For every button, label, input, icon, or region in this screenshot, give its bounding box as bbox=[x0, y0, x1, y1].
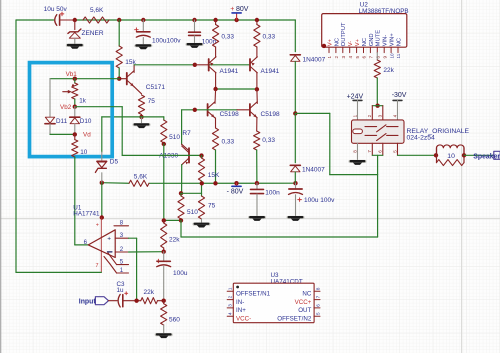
svg-text:5,6K: 5,6K bbox=[134, 173, 148, 180]
node junction input R bbox=[134, 299, 138, 303]
svg-text:+: + bbox=[107, 236, 111, 243]
U2 pin stubs and numbers bbox=[328, 47, 330, 52]
svg-text:024-2z54: 024-2z54 bbox=[407, 135, 436, 142]
svg-text:8: 8 bbox=[315, 287, 320, 290]
svg-text:6: 6 bbox=[315, 304, 320, 307]
node junction 0,33#4 bottom bbox=[255, 181, 259, 185]
svg-text:22k: 22k bbox=[169, 237, 180, 244]
wire 100n to ground bbox=[194, 36, 196, 43]
svg-text:HA17741: HA17741 bbox=[73, 211, 100, 218]
svg-text:OFFSET/N2: OFFSET/N2 bbox=[277, 315, 312, 322]
svg-text:10: 10 bbox=[447, 153, 455, 160]
wire C5198 collector bbox=[214, 89, 217, 103]
wire input to C3 bbox=[109, 300, 118, 302]
node junction protection mid bbox=[293, 111, 297, 115]
wire C5171 collector bbox=[133, 65, 135, 73]
svg-text:GND: GND bbox=[369, 33, 375, 46]
wire 22k to relay coil bbox=[376, 78, 378, 106]
wire driver base rail bbox=[182, 109, 237, 111]
svg-text:9: 9 bbox=[382, 56, 387, 59]
relay contacts bbox=[365, 126, 377, 128]
wire 1N4007 column top bbox=[294, 20, 296, 52]
node junction Vb1 bbox=[73, 77, 77, 81]
svg-text:V+: V+ bbox=[355, 38, 361, 46]
ground below 560 bbox=[155, 333, 173, 336]
svg-text:2: 2 bbox=[367, 114, 372, 117]
svg-text:Input: Input bbox=[79, 299, 97, 306]
zener diode D5 bbox=[101, 117, 103, 152]
svg-text:Vd: Vd bbox=[83, 131, 91, 138]
svg-text:R7: R7 bbox=[182, 130, 191, 137]
svg-text:+: + bbox=[96, 222, 99, 228]
svg-text:75: 75 bbox=[148, 98, 156, 105]
wire base rail A1941 bbox=[195, 64, 209, 66]
ground below zener bbox=[66, 44, 84, 47]
resistor 0,33 (C5198 #2 emitter) bbox=[254, 131, 260, 150]
wire C5198#2 collector bbox=[256, 89, 258, 103]
wire zener to ground bbox=[74, 38, 76, 43]
transistor C5198 #2 bbox=[249, 104, 251, 116]
resistor 15K bbox=[201, 156, 203, 158]
zener diode lead bbox=[74, 20, 76, 30]
U3 pin rows bbox=[227, 290, 233, 292]
wire to relay contact bbox=[295, 112, 330, 114]
resistor 510 (first) bbox=[161, 120, 167, 143]
svg-text:0,33: 0,33 bbox=[263, 34, 276, 41]
capacitor 100n top bbox=[189, 31, 201, 33]
wire Vb1 rail bbox=[50, 78, 119, 80]
ground below 75 bbox=[193, 223, 211, 226]
node junction 0,33#3 bottom bbox=[213, 181, 217, 185]
svg-text:75: 75 bbox=[208, 203, 216, 210]
svg-text:0,33: 0,33 bbox=[221, 34, 234, 41]
node junction Vb2 bbox=[73, 105, 77, 109]
svg-text:IN-: IN- bbox=[236, 299, 244, 306]
resistor 75 (C5171 emitter) bbox=[138, 95, 144, 115]
node junction driver rail bbox=[193, 108, 197, 112]
node junction 560 top bbox=[162, 299, 166, 303]
svg-text:A1941: A1941 bbox=[261, 68, 280, 75]
capacitor 100u bbox=[163, 252, 165, 261]
wire 510 top lead bbox=[163, 117, 165, 120]
svg-text:11: 11 bbox=[396, 53, 401, 58]
svg-text:1: 1 bbox=[327, 56, 332, 59]
node junction 15k tap bbox=[117, 18, 121, 22]
transistor A1941 #1 bbox=[208, 59, 210, 71]
wire 15k top lead bbox=[118, 20, 120, 46]
svg-text:3: 3 bbox=[341, 56, 346, 59]
svg-text:C5198: C5198 bbox=[261, 111, 281, 118]
svg-text:- 80V: - 80V bbox=[227, 189, 244, 196]
svg-text:15K: 15K bbox=[208, 172, 220, 179]
node junction fb right bbox=[179, 218, 183, 222]
wire 100n lead bbox=[194, 20, 196, 32]
wire 100u to ground bbox=[295, 195, 297, 216]
wire op-amp bottom rail bbox=[15, 20, 17, 272]
capacitor 100n lower bbox=[256, 183, 258, 189]
wire C5198 emitter lead bbox=[215, 118, 217, 128]
resistor 0,33 (C5198 #1 emitter) bbox=[212, 128, 218, 150]
relay RELAY_ORIGINALE body bbox=[352, 120, 405, 143]
wire relay pin8 to ground bbox=[357, 143, 359, 159]
node junction fb left bbox=[162, 218, 166, 222]
svg-text:1N4007: 1N4007 bbox=[303, 56, 326, 63]
svg-text:1u: 1u bbox=[117, 287, 125, 294]
wire relay bottom bracket bbox=[371, 143, 373, 155]
wire relay coil bracket bbox=[372, 105, 383, 107]
diode 1N4007 upper bbox=[290, 54, 300, 56]
wire +80V rail top bbox=[16, 19, 54, 21]
wire A1930 emitter down bbox=[181, 165, 183, 194]
wire C3 to 22k bbox=[123, 300, 140, 302]
wire cap lead bbox=[142, 20, 144, 31]
wire 100u bottom bbox=[163, 266, 165, 300]
svg-text:NC: NC bbox=[362, 38, 368, 46]
svg-text:510: 510 bbox=[169, 134, 180, 141]
supply +80V bbox=[236, 13, 238, 20]
node junction relay coil top bbox=[375, 104, 379, 108]
resistor 15k bbox=[116, 46, 122, 68]
svg-text:8: 8 bbox=[376, 56, 381, 59]
wire C5171 emitter to 75 bbox=[134, 87, 141, 94]
ground below 100u lower bbox=[287, 216, 305, 219]
wire -80V rail bbox=[102, 182, 129, 185]
wire A1930 base rail bbox=[122, 154, 201, 156]
resistor 5,6K top bbox=[83, 17, 109, 23]
ground at C5171 emitter bbox=[141, 117, 143, 123]
wire capacitor C? left lead bbox=[61, 19, 75, 21]
svg-text:6: 6 bbox=[378, 150, 383, 153]
node junction 0,33 tap A1941 right bbox=[255, 18, 259, 22]
svg-text:10u 50v: 10u 50v bbox=[44, 6, 68, 13]
svg-text:OUT: OUT bbox=[298, 307, 311, 314]
transistor C5198 #1 bbox=[207, 104, 209, 116]
node junction speaker L right bbox=[462, 153, 466, 157]
node junction output left bbox=[213, 87, 217, 91]
resistor 5,6K lower bbox=[129, 180, 149, 186]
resistor 0,33 (A1941 #1 emitter) bbox=[215, 20, 217, 25]
wire to speaker bbox=[464, 154, 494, 156]
transistor A1941 #2 bbox=[249, 59, 251, 71]
ground below 100n lower bbox=[248, 216, 266, 219]
wire 75#2 branch bbox=[181, 192, 202, 194]
transistor C5171 bbox=[119, 78, 126, 80]
svg-text:8: 8 bbox=[352, 150, 357, 153]
svg-text:D10: D10 bbox=[80, 118, 92, 125]
svg-text:3: 3 bbox=[227, 304, 232, 307]
node junction collector rail / A1941 bases bbox=[193, 63, 197, 67]
svg-text:5: 5 bbox=[315, 312, 320, 315]
svg-text:VCC+: VCC+ bbox=[295, 299, 312, 306]
svg-text:22k: 22k bbox=[383, 67, 394, 74]
svg-text:100u: 100u bbox=[173, 270, 188, 277]
wire A1941 collector to node bbox=[215, 72, 217, 89]
svg-text:D5: D5 bbox=[110, 159, 119, 166]
svg-text:80V: 80V bbox=[236, 6, 249, 13]
svg-text:5,6K: 5,6K bbox=[90, 7, 104, 14]
svg-text:100u 100v: 100u 100v bbox=[304, 197, 335, 204]
node junction at zener tap bbox=[73, 18, 77, 22]
svg-text:NC: NC bbox=[302, 291, 311, 298]
svg-text:NC: NC bbox=[334, 38, 340, 46]
node junction U2 corner bbox=[322, 44, 326, 48]
wire C5198#2 emitter lead bbox=[256, 118, 258, 131]
svg-text:7: 7 bbox=[369, 56, 374, 59]
svg-text:5: 5 bbox=[355, 56, 360, 59]
op-amp pin stubs bbox=[114, 225, 129, 227]
svg-text:1: 1 bbox=[227, 287, 232, 290]
wire Vb2 to driver bbox=[75, 106, 122, 108]
potentiometer 1k bbox=[74, 79, 76, 83]
svg-text:10: 10 bbox=[80, 149, 88, 156]
svg-text:A1941: A1941 bbox=[220, 68, 239, 75]
node junction D5 bottom bbox=[100, 181, 104, 185]
node junction 510 bottom bbox=[163, 143, 165, 144]
svg-text:100n: 100n bbox=[265, 189, 280, 196]
svg-text:560: 560 bbox=[169, 316, 180, 323]
svg-text:100u100v: 100u100v bbox=[152, 38, 181, 45]
wire cap to ground bbox=[142, 38, 144, 44]
svg-text:5: 5 bbox=[392, 150, 397, 153]
svg-text:C5198: C5198 bbox=[220, 111, 240, 118]
svg-text:0,33: 0,33 bbox=[222, 139, 235, 146]
node junction 100u100v tap bbox=[141, 18, 145, 22]
wire relay pin5 output bbox=[397, 143, 399, 155]
svg-text:D11: D11 bbox=[56, 118, 68, 125]
node junction speaker L left bbox=[434, 153, 438, 157]
node junction 15K top bbox=[199, 153, 203, 157]
wire 10 to op-amp pin6 bbox=[74, 157, 76, 245]
svg-text:22k: 22k bbox=[144, 289, 155, 296]
wire pin2 to feedback node bbox=[129, 251, 164, 253]
svg-text:7: 7 bbox=[96, 263, 99, 269]
node junction 100n tap bbox=[192, 18, 196, 22]
svg-text:MUTE: MUTE bbox=[376, 30, 382, 47]
svg-text:-30V: -30V bbox=[392, 92, 407, 99]
wire pin3 to input node bbox=[129, 237, 137, 239]
wire D11 bottom bbox=[49, 124, 51, 134]
ground below 100n bbox=[186, 43, 204, 46]
wire 0,33#4 to -80V rail bbox=[256, 150, 258, 183]
transistor A1930 bbox=[182, 144, 189, 150]
diode D10 bbox=[74, 107, 76, 117]
diode D11 bbox=[45, 117, 54, 123]
capacitor 100u100v bbox=[135, 29, 139, 31]
svg-text:Vb2: Vb2 bbox=[60, 104, 72, 111]
inductor/resistor 10 parallel bbox=[437, 145, 465, 155]
node junction emitter/ground bbox=[139, 115, 143, 119]
node junction 510#2 top bbox=[179, 191, 183, 195]
resistor 0,33 (A1941 #2 emitter) bbox=[256, 20, 258, 25]
svg-text:OUTPUT: OUTPUT bbox=[341, 22, 347, 46]
wire D5 bottom bbox=[101, 173, 103, 183]
svg-text:ZENER: ZENER bbox=[82, 30, 104, 37]
node junction 100u top bbox=[162, 250, 166, 254]
node junction C5171 base bbox=[117, 77, 121, 81]
ground below relay bbox=[349, 160, 367, 163]
svg-text:7: 7 bbox=[367, 150, 372, 153]
capacitor 10u 50v bbox=[55, 15, 57, 26]
svg-text:V+: V+ bbox=[327, 38, 333, 46]
svg-text:1N4007: 1N4007 bbox=[302, 167, 325, 174]
ground below 100u100v bbox=[134, 44, 152, 47]
wire fb net down bbox=[180, 220, 182, 237]
supply -80V bbox=[236, 183, 238, 186]
wire 560 to ground bbox=[163, 325, 165, 333]
wire output node pair bbox=[216, 88, 257, 90]
svg-text:NC: NC bbox=[396, 38, 402, 46]
svg-text:2: 2 bbox=[334, 56, 339, 59]
zener diode ZENER bbox=[68, 29, 81, 33]
svg-text:3: 3 bbox=[378, 114, 383, 117]
wire 1N4007 lower column bbox=[294, 113, 296, 162]
window left edge bbox=[0, 0, 2, 353]
diode 1N4007 lower bbox=[290, 164, 300, 166]
page frame divider horizontal bbox=[0, 218, 500, 220]
wire 0,33 to -80V rail bbox=[215, 150, 217, 183]
svg-text:10: 10 bbox=[389, 53, 394, 59]
svg-text:VCC-: VCC- bbox=[236, 315, 251, 322]
wire 510 bottom long vertical bbox=[163, 144, 165, 220]
blue highlight box bbox=[30, 63, 113, 157]
resistor 510 (second) bbox=[180, 193, 182, 196]
svg-text:V-: V- bbox=[348, 41, 354, 47]
svg-text:1: 1 bbox=[352, 114, 357, 117]
wire Vd-rail to 510 bbox=[102, 116, 164, 118]
node junction Vd bbox=[73, 132, 77, 136]
svg-text:6: 6 bbox=[362, 56, 367, 59]
svg-text:C5171: C5171 bbox=[146, 84, 166, 91]
svg-text:4: 4 bbox=[227, 312, 232, 315]
wire D11 top lead bbox=[49, 79, 51, 117]
node junction 15K bottom bbox=[200, 181, 204, 185]
svg-text:VIN-: VIN- bbox=[383, 35, 389, 47]
node junction +80V tap bbox=[234, 18, 238, 22]
wire diode to node bbox=[294, 62, 296, 114]
resistor 22k mute bbox=[374, 60, 380, 78]
svg-text:0,33: 0,33 bbox=[262, 137, 275, 144]
svg-text:IN+: IN+ bbox=[236, 307, 246, 314]
svg-text:1k: 1k bbox=[79, 97, 87, 104]
svg-text:4: 4 bbox=[392, 114, 397, 117]
svg-text:2: 2 bbox=[227, 295, 232, 298]
svg-text:OFFSET/N1: OFFSET/N1 bbox=[236, 291, 271, 298]
svg-text:+: + bbox=[230, 6, 234, 13]
wire op-amp supply column bbox=[101, 183, 103, 218]
capacitor 100u 100v lower bbox=[295, 183, 297, 188]
svg-text:510: 510 bbox=[187, 209, 198, 216]
wire 15k bottom lead bbox=[118, 68, 120, 79]
node junction output right bbox=[255, 87, 259, 91]
page frame divider vertical bbox=[461, 0, 463, 353]
wire 100n to ground bbox=[256, 194, 258, 216]
resistor 75 (to ground) bbox=[201, 193, 203, 196]
resistor 560 bbox=[163, 301, 165, 304]
node junction -80V tap bbox=[234, 181, 238, 185]
wire 0,33 to A1941 emitter bbox=[215, 47, 217, 57]
node junction 100u100v/diode bottom bbox=[293, 181, 297, 185]
wire 22k feedback top bbox=[164, 219, 181, 221]
resistor 22k input bbox=[141, 298, 158, 304]
wire 75 to ground bbox=[201, 219, 203, 222]
resistor 10 bbox=[74, 134, 76, 139]
svg-text:7: 7 bbox=[315, 295, 320, 298]
node junction op-amp V+ bbox=[100, 215, 104, 219]
svg-text:4: 4 bbox=[348, 56, 353, 59]
svg-text:VIN+: VIN+ bbox=[390, 33, 396, 47]
wire MUTE pull resistor lead bbox=[376, 53, 378, 60]
node junction 0,33 tap A1941 left bbox=[213, 18, 217, 22]
wire R7 vertical (VAS collector) bbox=[181, 110, 183, 144]
resistor 22k feedback bbox=[163, 220, 165, 223]
